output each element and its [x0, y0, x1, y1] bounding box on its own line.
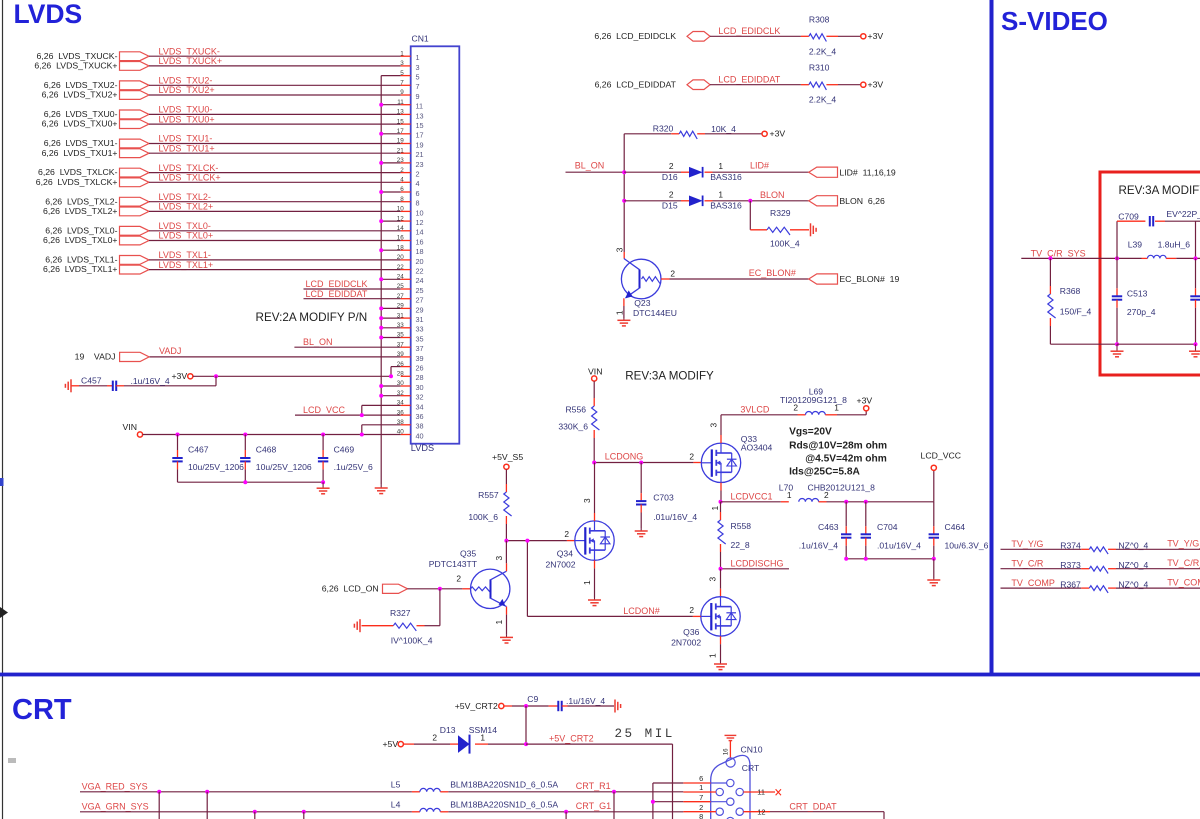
power +3V (L69) [857, 395, 873, 411]
wire S-VIDEO bottom bus [1117, 343, 1196, 345]
inductor L70 [779, 483, 875, 502]
svg-text:36: 36 [416, 412, 424, 421]
junction C513 bus [1115, 342, 1119, 346]
svg-text:R308: R308 [809, 14, 830, 24]
svg-text:R558: R558 [731, 521, 752, 531]
wire LCDONG row [594, 462, 701, 464]
ground C513 [1116, 344, 1118, 351]
wire R368 to bus [1050, 318, 1117, 344]
ground capacitor bus [322, 482, 324, 488]
ground CN10 [725, 735, 737, 740]
wire C709 riser [1116, 221, 1118, 258]
svg-text:BAS316: BAS316 [710, 172, 742, 182]
svg-text:2: 2 [824, 490, 829, 500]
wire VGA_GRN drop 1 [254, 812, 256, 819]
svg-text:34: 34 [416, 402, 424, 411]
junction +3V C457 [214, 374, 218, 378]
svg-text:+3V: +3V [857, 395, 873, 405]
wire VGA_RED_SYS row [80, 791, 420, 793]
wire L5 to CRT_R1 [440, 791, 683, 793]
junction bus pin 17 [379, 132, 383, 136]
power +3V (R308) [861, 31, 884, 41]
svg-text:TV_COMP: TV_COMP [1011, 578, 1055, 588]
svg-text:270p_4: 270p_4 [1127, 307, 1156, 317]
svg-text:L5: L5 [391, 780, 401, 790]
CN10 pin 1 stub [683, 783, 716, 792]
wire VGA_RED drop 2 [206, 792, 208, 819]
junction LCDONG R556/Q34 [592, 461, 596, 465]
wire LVDS_TXU1+ [149, 152, 401, 154]
wire Q33 drain / 3VLCD [709, 415, 806, 443]
junction L70 C463 [844, 500, 848, 504]
svg-text:BLM18BA220SN1D_6_0.5A: BLM18BA220SN1D_6_0.5A [450, 800, 558, 810]
svg-text:PDTC143TT: PDTC143TT [429, 559, 478, 569]
CN1 pin 25 [397, 283, 424, 295]
wire LVDS_TXUCK- [149, 55, 401, 57]
junction bus pin 31 [379, 316, 383, 320]
wire TV_Y/G row right [1108, 548, 1200, 550]
svg-text:21: 21 [416, 150, 424, 159]
svg-text:BLON 6,26: BLON 6,26 [839, 196, 885, 206]
junction bus pin 33 [379, 326, 383, 330]
wire R327 branch [417, 589, 440, 626]
CN1 pin 12 [397, 215, 424, 227]
junction LCDON# branch [525, 539, 529, 543]
svg-text:LVDS: LVDS [14, 0, 83, 29]
svg-text:8: 8 [400, 196, 404, 203]
svg-text:100K_4: 100K_4 [770, 239, 800, 249]
connector CN1 body [411, 46, 460, 443]
wire capacitor bus LCD_VCC [846, 558, 934, 560]
svg-text:5: 5 [400, 70, 404, 77]
port LCD_ON [322, 584, 408, 594]
ground C464 [933, 578, 935, 580]
wire D15 cathode [705, 200, 809, 202]
svg-text:S-VIDEO: S-VIDEO [1001, 6, 1108, 36]
svg-text:1: 1 [710, 506, 720, 511]
CN1 pin 36 [397, 409, 424, 421]
svg-text:Vgs=20V: Vgs=20V [789, 427, 832, 438]
svg-text:LVDS_TXU0-: LVDS_TXU0- [159, 105, 213, 115]
svg-text:10: 10 [416, 208, 424, 217]
junction CRT_R1 [612, 790, 616, 794]
wire Q36 source to ground [708, 636, 721, 661]
junction cap bus C463 [844, 557, 848, 561]
svg-text:2: 2 [416, 170, 420, 179]
CN1 pin 4 [400, 177, 419, 189]
junction bus pin 11 [379, 103, 383, 107]
CN1 pin 40 [397, 429, 424, 441]
power +3V (C457) [171, 371, 192, 381]
wire LCDVCC1 row [710, 502, 789, 511]
CN1 pin 7 [400, 80, 419, 92]
CN1 pin 11 [397, 99, 423, 111]
svg-text:C457: C457 [81, 375, 102, 385]
wire C9 junction drop [525, 706, 527, 744]
wire R308 to +3V [826, 35, 860, 37]
CN1 pin 18 [397, 244, 424, 256]
svg-text:2: 2 [689, 605, 694, 615]
wire TV_C/R row left [1001, 568, 1090, 570]
svg-text:6,26 LVDS_TXUCK+: 6,26 LVDS_TXUCK+ [34, 61, 117, 71]
svg-text:2: 2 [699, 803, 703, 812]
svg-text:C703: C703 [653, 493, 674, 503]
capacitor C513 [1112, 258, 1156, 344]
svg-text:AO3404: AO3404 [741, 443, 773, 453]
port LCD_EDIDCLK [594, 31, 710, 41]
svg-text:6,26 LVDS_TXU1-: 6,26 LVDS_TXU1- [44, 138, 118, 148]
CN1 pin 10 [397, 206, 424, 218]
svg-text:TV_Y/G_S: TV_Y/G_S [1167, 539, 1200, 549]
svg-text:IV^100K_4: IV^100K_4 [391, 635, 433, 645]
CN10 pin 11 row [743, 788, 775, 797]
wire Q34 source to ground [582, 560, 594, 597]
wire VGA_RED drop 1 [158, 792, 160, 819]
svg-text:23: 23 [416, 160, 424, 169]
junction LCDDISCHG [719, 567, 723, 571]
wire R327 to ground [362, 625, 394, 627]
inductor L39 [1128, 239, 1200, 258]
wire R556 to LCDONG [593, 430, 595, 463]
wire LVDS_TXLCK- [149, 172, 401, 174]
port LVDS_TXL1+ [43, 264, 149, 274]
svg-text:10K_4: 10K_4 [711, 124, 736, 134]
CN10 pin 7 circle [727, 798, 734, 805]
svg-text:LCD_EDIDDAT: LCD_EDIDDAT [718, 75, 780, 85]
svg-text:8: 8 [699, 812, 703, 819]
junction pin26/28 jog [389, 374, 393, 378]
CN1 pin 9 [400, 89, 419, 101]
svg-text:R310: R310 [809, 63, 830, 73]
port LVDS_TXU1- [44, 138, 149, 148]
svg-text:LVDS_TXUCK-: LVDS_TXUCK- [159, 46, 220, 56]
wire LVDS_TXLCK+ [149, 181, 401, 183]
wire VIN down [593, 381, 595, 406]
power +5V terminal (D13) [382, 739, 403, 749]
CN1 pin 24 [397, 274, 424, 286]
svg-text:LVDS_TXU1+: LVDS_TXU1+ [159, 143, 215, 153]
power +3V (R310) [861, 80, 884, 90]
port LVDS_TXL2+ [43, 206, 149, 216]
svg-text:VGA_RED_SYS: VGA_RED_SYS [82, 781, 148, 791]
svg-text:D13: D13 [440, 725, 456, 735]
wire D13 to CRT rail [475, 743, 526, 745]
wire LVDS_TXL2- [149, 201, 401, 203]
wire CN1 pin 33 ground stub [381, 327, 401, 329]
svg-text:25 MIL: 25 MIL [615, 727, 675, 741]
svg-text:38: 38 [416, 422, 424, 431]
svg-text:R329: R329 [770, 208, 791, 218]
svg-text:6,26 LCD_ON: 6,26 LCD_ON [322, 584, 379, 594]
svg-text:29: 29 [416, 305, 424, 314]
svg-text:6,26 LVDS_TXL0-: 6,26 LVDS_TXL0- [45, 225, 117, 235]
svg-text:6,26 LVDS_TXL2+: 6,26 LVDS_TXL2+ [43, 206, 117, 216]
wire R557 to node [505, 516, 507, 541]
svg-text:6,26 LVDS_TXL1-: 6,26 LVDS_TXL1- [45, 255, 117, 265]
wire +3V to pin28 [193, 367, 401, 377]
junction VIN C467 [176, 433, 180, 437]
svg-text:CRT_DDAT: CRT_DDAT [789, 801, 837, 811]
CN10 pin 12 row [743, 807, 884, 819]
svg-text:1: 1 [494, 620, 504, 625]
wire C703 branch [640, 463, 642, 502]
svg-text:+5V_CRT2: +5V_CRT2 [455, 701, 498, 711]
wire C709 right riser [1196, 221, 1200, 258]
port VADJ [75, 352, 149, 362]
svg-text:LCD_EDIDCLK: LCD_EDIDCLK [306, 279, 368, 289]
svg-text:3: 3 [494, 556, 504, 561]
svg-text:VADJ: VADJ [159, 346, 181, 356]
svg-text:C9: C9 [527, 694, 538, 704]
wire TV_COMP row right [1108, 587, 1200, 589]
svg-text:150/F_4: 150/F_4 [1060, 307, 1092, 317]
svg-text:R556: R556 [565, 405, 586, 415]
svg-text:LCDDISCHG: LCDDISCHG [731, 559, 784, 569]
junction LCDVCC1 [719, 500, 723, 504]
svg-text:LVDS_TXL2-: LVDS_TXL2- [159, 192, 211, 202]
svg-text:20: 20 [416, 257, 424, 266]
svg-text:19 VADJ: 19 VADJ [75, 352, 116, 362]
junction R557 Q35 [504, 539, 508, 543]
svg-text:C709: C709 [1118, 212, 1139, 222]
svg-text:C468: C468 [256, 445, 277, 455]
power +5V_S5 terminal [492, 452, 523, 469]
svg-text:14: 14 [416, 228, 424, 237]
svg-text:C704: C704 [877, 522, 898, 532]
svg-text:LVDS_TXLCK-: LVDS_TXLCK- [159, 163, 219, 173]
svg-text:28: 28 [397, 371, 405, 378]
CN1 pin 29 [397, 303, 424, 315]
svg-text:TV_Y/G: TV_Y/G [1011, 539, 1043, 549]
svg-text:R327: R327 [390, 608, 411, 618]
CN10 pin 6 circle [727, 779, 734, 786]
svg-text:D16: D16 [662, 172, 678, 182]
wire CRT_R1 drop [613, 792, 615, 819]
svg-text:CRT_R1: CRT_R1 [576, 781, 611, 791]
svg-text:+5V_CRT2: +5V_CRT2 [549, 734, 594, 744]
wire C703 to ground [640, 505, 642, 529]
svg-text:28: 28 [416, 373, 424, 382]
inductor L5 [391, 780, 559, 792]
CN1 pin 20 [397, 254, 424, 266]
svg-text:Rds@10V=28m ohm: Rds@10V=28m ohm [789, 440, 887, 451]
svg-text:VIN: VIN [123, 422, 137, 432]
power +5V_CRT2 terminal [455, 701, 504, 711]
svg-text:6,26 LVDS_TXU1+: 6,26 LVDS_TXU1+ [42, 148, 118, 158]
junction bus pin 30 [379, 384, 383, 388]
port LVDS_TXU0- [44, 109, 149, 119]
wire Q23 collector lead [623, 252, 625, 259]
wire +5V_CRT2 top [504, 705, 558, 707]
sheet zone mark arrow [0, 607, 8, 618]
junction VGA_GRN 2 [302, 810, 306, 814]
wire CN1 pin 11 ground stub [381, 104, 401, 106]
wire CRT_G1 drop [565, 812, 567, 819]
svg-text:BLON: BLON [760, 190, 785, 200]
resistor R373 [1060, 560, 1148, 574]
CN1 pin 21 [397, 147, 424, 159]
svg-text:LCDVCC1: LCDVCC1 [731, 492, 773, 502]
svg-text:1: 1 [582, 580, 592, 585]
svg-text:Q36: Q36 [683, 627, 699, 637]
port LCD_EDIDDAT [595, 80, 710, 90]
svg-text:+5V: +5V [382, 739, 398, 749]
svg-text:TV_C/R_S: TV_C/R_S [1167, 558, 1200, 568]
port LVDS_TXU0+ [42, 119, 149, 129]
ground Q23 [623, 319, 625, 321]
wire CN1 ground bus vertical [380, 76, 382, 484]
svg-text:+3V: +3V [171, 371, 187, 381]
CN1 pin 2 [400, 167, 419, 179]
resistor R308 [809, 14, 836, 56]
junction L39 right [1194, 256, 1198, 260]
junction VIN C469 [321, 433, 325, 437]
svg-text:TV_C/R_SYS: TV_C/R_SYS [1031, 248, 1086, 258]
svg-text:8: 8 [416, 199, 420, 208]
svg-text:L4: L4 [391, 800, 401, 810]
ground C-right [1195, 344, 1197, 351]
svg-text:22: 22 [416, 267, 424, 276]
svg-text:Q35: Q35 [460, 549, 476, 559]
CN1 pin 1 [400, 50, 419, 62]
CN1 pin 22 [397, 264, 424, 276]
svg-text:2: 2 [432, 733, 437, 743]
svg-text:LVDS_TXL2+: LVDS_TXL2+ [159, 202, 214, 212]
CN1 pin 5 [400, 70, 419, 82]
wire LVDS_TXU1- [149, 143, 401, 145]
no-connect X pin 11 [776, 789, 781, 795]
svg-text:11: 11 [757, 788, 765, 797]
svg-text:2: 2 [670, 268, 675, 278]
svg-text:1.8uH_6: 1.8uH_6 [1158, 239, 1191, 249]
junction D15 branch [622, 199, 626, 203]
transistor Q35 PDTC143TT [429, 549, 510, 609]
svg-text:R368: R368 [1060, 286, 1081, 296]
svg-text:7: 7 [699, 793, 703, 802]
svg-text:LID#: LID# [750, 161, 769, 171]
wire CN1 pin 6 ground stub [381, 191, 401, 193]
wire BL_ON net stub [566, 171, 625, 173]
svg-text:+3V: +3V [868, 31, 884, 41]
wire LCD_EDIDDAT [710, 84, 809, 86]
svg-text:BL_ON: BL_ON [303, 337, 333, 347]
wire VGA_GRN drop 2 [303, 812, 305, 819]
CN1 pin 30 [397, 380, 424, 392]
svg-text:Q34: Q34 [557, 549, 573, 559]
junction cap bus C469 [321, 480, 325, 484]
svg-text:3VLCD: 3VLCD [740, 404, 770, 414]
junction VGA_RED 2 [205, 790, 209, 794]
svg-text:3: 3 [709, 423, 719, 428]
wire LVDS_TXL0- [149, 230, 401, 232]
svg-text:R557: R557 [478, 490, 499, 500]
svg-text:C463: C463 [818, 522, 839, 532]
capacitor C468 [240, 435, 312, 483]
svg-text:1: 1 [615, 310, 625, 315]
resistor R368 [1048, 258, 1092, 318]
inductor L69 [780, 387, 847, 415]
svg-text:.1u/16V_4: .1u/16V_4 [131, 376, 170, 386]
port BLON [809, 196, 885, 206]
CN1 pin 15 [397, 118, 424, 130]
capacitor C464 [929, 502, 989, 559]
CN1 pin 8 [400, 196, 419, 208]
port LVDS_TXUCK+ [34, 61, 149, 71]
resistor R557 [468, 490, 511, 522]
junction cap bus C704 [864, 557, 868, 561]
svg-text:7: 7 [416, 82, 420, 91]
svg-text:27: 27 [416, 296, 424, 305]
CN10 pin 8 circle [727, 817, 734, 819]
ground R329 [810, 223, 812, 236]
svg-text:10u/6.3V_6: 10u/6.3V_6 [945, 541, 989, 551]
svg-text:40: 40 [416, 431, 424, 440]
wire Q35 emitter to ground [494, 607, 507, 635]
CN1 pin 31 [397, 312, 424, 324]
wire Q34 gate row [506, 540, 575, 542]
sheet border left edge [2, 0, 4, 819]
junction D13 C9 [524, 742, 528, 746]
svg-text:6,26 LVDS_TXL0+: 6,26 LVDS_TXL0+ [43, 235, 117, 245]
port LVDS_TXL2- [45, 196, 149, 206]
svg-text:1: 1 [718, 190, 723, 200]
port LVDS_TXU2+ [42, 90, 149, 100]
svg-text:2N7002: 2N7002 [671, 638, 701, 648]
svg-text:37: 37 [416, 344, 424, 353]
wire LVDS_TXL1+ [149, 269, 401, 271]
CN1 pin 13 [397, 109, 424, 121]
wire D16 anode [624, 171, 689, 173]
svg-text:EC_BLON#: EC_BLON# [749, 268, 796, 278]
svg-text:3: 3 [615, 247, 625, 252]
junction pin7 feed [651, 800, 655, 804]
svg-text:.01u/16V_4: .01u/16V_4 [653, 512, 697, 522]
wire LVDS_TXU0+ [149, 123, 401, 125]
wire +5V_S5 down [505, 469, 507, 492]
svg-text:2.2K_4: 2.2K_4 [809, 95, 836, 105]
svg-text:C467: C467 [188, 445, 209, 455]
wire Q23 base to EC_BLON# [661, 268, 809, 279]
port LVDS_TXUCK- [37, 51, 149, 61]
resistor R367 [1060, 579, 1148, 592]
transistor Q34 2N7002 [545, 521, 614, 569]
svg-text:EC_BLON# 19: EC_BLON# 19 [839, 274, 899, 284]
svg-text:6,26 LVDS_TXL2-: 6,26 LVDS_TXL2- [45, 196, 117, 206]
svg-text:LVDS_TXL0-: LVDS_TXL0- [159, 221, 211, 231]
svg-text:CHB2012U121_8: CHB2012U121_8 [808, 483, 876, 493]
wire +5V_CRT2 to CN10 area [526, 744, 673, 819]
svg-text:+5V_S5: +5V_S5 [492, 452, 523, 462]
wire R320 to +3V [697, 133, 762, 135]
CN1 pin 39 [397, 351, 424, 363]
svg-text:1: 1 [708, 653, 718, 658]
svg-text:2N7002: 2N7002 [545, 559, 575, 569]
junction C-right bus [1194, 342, 1198, 346]
resistor R558 [718, 520, 751, 550]
port LVDS_TXL0+ [43, 235, 149, 245]
connector CN10 pin16 circle [726, 758, 735, 767]
wire Q35 collector [494, 541, 507, 572]
svg-text:2: 2 [669, 161, 674, 171]
svg-text:LVDS_TXU2+: LVDS_TXU2+ [159, 85, 215, 95]
port EC_BLON# [809, 274, 900, 284]
wire TV_Y/G row left [1001, 548, 1090, 550]
wire C9 to ground [562, 705, 614, 707]
junction VGA_RED 1 [157, 790, 161, 794]
wire CN1 pin 32 ground stub [381, 395, 401, 397]
CN1 pin 35 [397, 332, 424, 344]
port LVDS_TXLCK+ [36, 177, 149, 187]
